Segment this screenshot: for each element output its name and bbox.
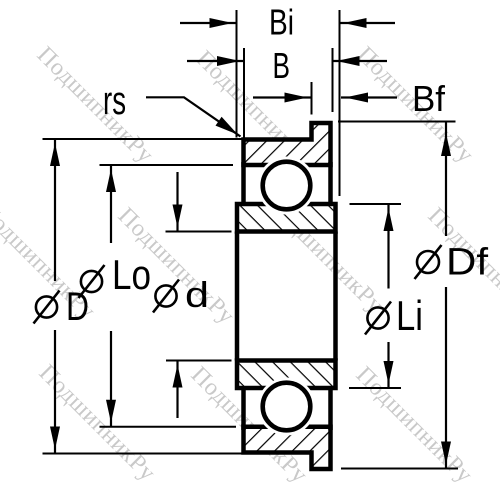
label diameter d [155, 285, 176, 306]
svg-text:Df: Df [446, 242, 488, 284]
outer ring top section with flange [244, 123, 331, 165]
label diameter Df [417, 251, 439, 273]
svg-text:Bi: Bi [269, 2, 294, 43]
outer ring bottom section with flange [244, 427, 331, 469]
extension line B right [332, 48, 334, 112]
inner ring top section [237, 204, 336, 232]
left face line bottom half [241, 386, 246, 430]
left face line top half [241, 162, 246, 206]
svg-text:rs: rs [103, 79, 126, 123]
dimension Df line top segment [445, 122, 447, 237]
dimension Bf right arrow [341, 96, 397, 98]
dimension Lo line top segment [110, 165, 112, 243]
dimension Bi right arrow [340, 22, 396, 24]
right face line top half [328, 162, 333, 206]
top ball groove [258, 157, 316, 215]
extension line Bf left [311, 82, 313, 115]
extension line Bi left [236, 10, 238, 138]
dimension Li line bottom segment [387, 342, 389, 388]
extension line Li top [350, 203, 402, 205]
extension line d top [166, 231, 232, 233]
svg-text:Li: Li [396, 292, 423, 339]
ball top [263, 162, 311, 210]
svg-text:Lo: Lo [112, 251, 151, 298]
extension line B left [243, 48, 245, 138]
dimension D line bottom segment [54, 330, 56, 454]
ball bottom [263, 383, 311, 431]
label diameter Li [367, 307, 388, 328]
extension line Df top [338, 121, 456, 123]
dimension Df line bottom segment [445, 287, 447, 469]
label diameter Lo [81, 271, 102, 292]
dimension D line top segment [54, 139, 56, 281]
extension line Lo bottom [100, 426, 237, 428]
dimension Li line top segment [387, 204, 389, 289]
extension line Lo top [100, 164, 234, 166]
label diameter D [36, 296, 57, 317]
extension line Df bottom [341, 468, 458, 470]
svg-text:Bf: Bf [412, 78, 446, 119]
inner ring bottom section [237, 361, 336, 389]
extension line D top [43, 138, 244, 140]
extension line d bottom [166, 360, 232, 362]
right face line bottom half [328, 386, 333, 430]
dimension Bi left arrow [180, 22, 237, 24]
dimension d top outside arrow [176, 172, 178, 232]
dimension Bf left arrow [253, 96, 312, 98]
extension line Li bottom [349, 387, 401, 389]
dimension Lo line bottom segment [110, 331, 112, 427]
dimension B left arrow [187, 60, 244, 62]
bottom ball groove [258, 378, 316, 436]
extension line Bi right [339, 10, 341, 196]
dimension B right arrow [333, 60, 388, 62]
bore left edge line [235, 232, 240, 361]
extension line D bottom [43, 453, 244, 455]
svg-text:B: B [273, 45, 291, 86]
bore right edge line [333, 232, 338, 361]
svg-text:d: d [185, 274, 209, 315]
dimension d bottom outside arrow [176, 361, 178, 419]
rs leader line [146, 97, 241, 136]
